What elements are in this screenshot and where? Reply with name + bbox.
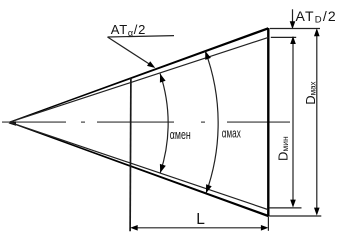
svg-text:αмен: αмен <box>170 129 191 143</box>
svg-text:Dмин: Dмин <box>276 136 291 161</box>
alpha-max top arrowhead <box>205 51 211 60</box>
extension line ATD/2 lower <box>271 36 296 38</box>
angle arc alpha-max (outer, large angle) <box>205 51 218 193</box>
Dmin bottom arrowhead <box>290 200 296 208</box>
dimension line L <box>132 227 266 229</box>
cone big-end right edge (thick) <box>267 28 269 216</box>
L left arrowhead <box>130 225 138 231</box>
leader shelf of ATa/2 <box>108 36 175 37</box>
dimension line Dmax <box>316 30 318 214</box>
dimension line Dmin <box>292 43 294 205</box>
Dmin top arrowhead <box>290 36 296 44</box>
apex wedge <box>8 121 16 126</box>
svg-text:Dмах: Dмах <box>303 81 318 104</box>
tolerance line bottom (thin) <box>10 122 268 209</box>
extension line Dmax top <box>270 28 320 30</box>
extension line Dmax bottom <box>269 215 321 217</box>
cone outline bottom (thick) <box>9 122 268 218</box>
Dmax bottom arrowhead <box>314 208 320 216</box>
centerline (dash-dot cone axis) <box>2 121 290 123</box>
angle arc alpha-men (inner, small angle) <box>160 74 168 173</box>
Dmax top arrowhead <box>314 28 320 36</box>
svg-text:L: L <box>196 211 205 228</box>
alpha-max bottom arrowhead <box>206 184 212 193</box>
ATD/2 upper arrowhead <box>290 21 296 29</box>
leader line of ATa/2 <box>108 37 153 66</box>
cone outline top (thick) <box>9 27 268 123</box>
leader arrowhead of ATa/2 <box>147 61 155 68</box>
alpha-men bottom arrowhead <box>160 164 166 173</box>
extension line Dmin bottom <box>269 207 302 209</box>
alpha-men top arrowhead <box>160 74 166 83</box>
svg-text:αмах: αмах <box>222 127 241 141</box>
svg-text:ATα/2: ATα/2 <box>111 22 146 38</box>
tolerance line top (thin) <box>10 37 269 122</box>
extension line L right <box>267 217 269 231</box>
svg-text:ATD/2: ATD/2 <box>296 8 337 26</box>
L right arrowhead <box>261 225 269 231</box>
ATD/2 upper arrow line <box>292 9 294 21</box>
small-end section line D <box>129 78 132 231</box>
